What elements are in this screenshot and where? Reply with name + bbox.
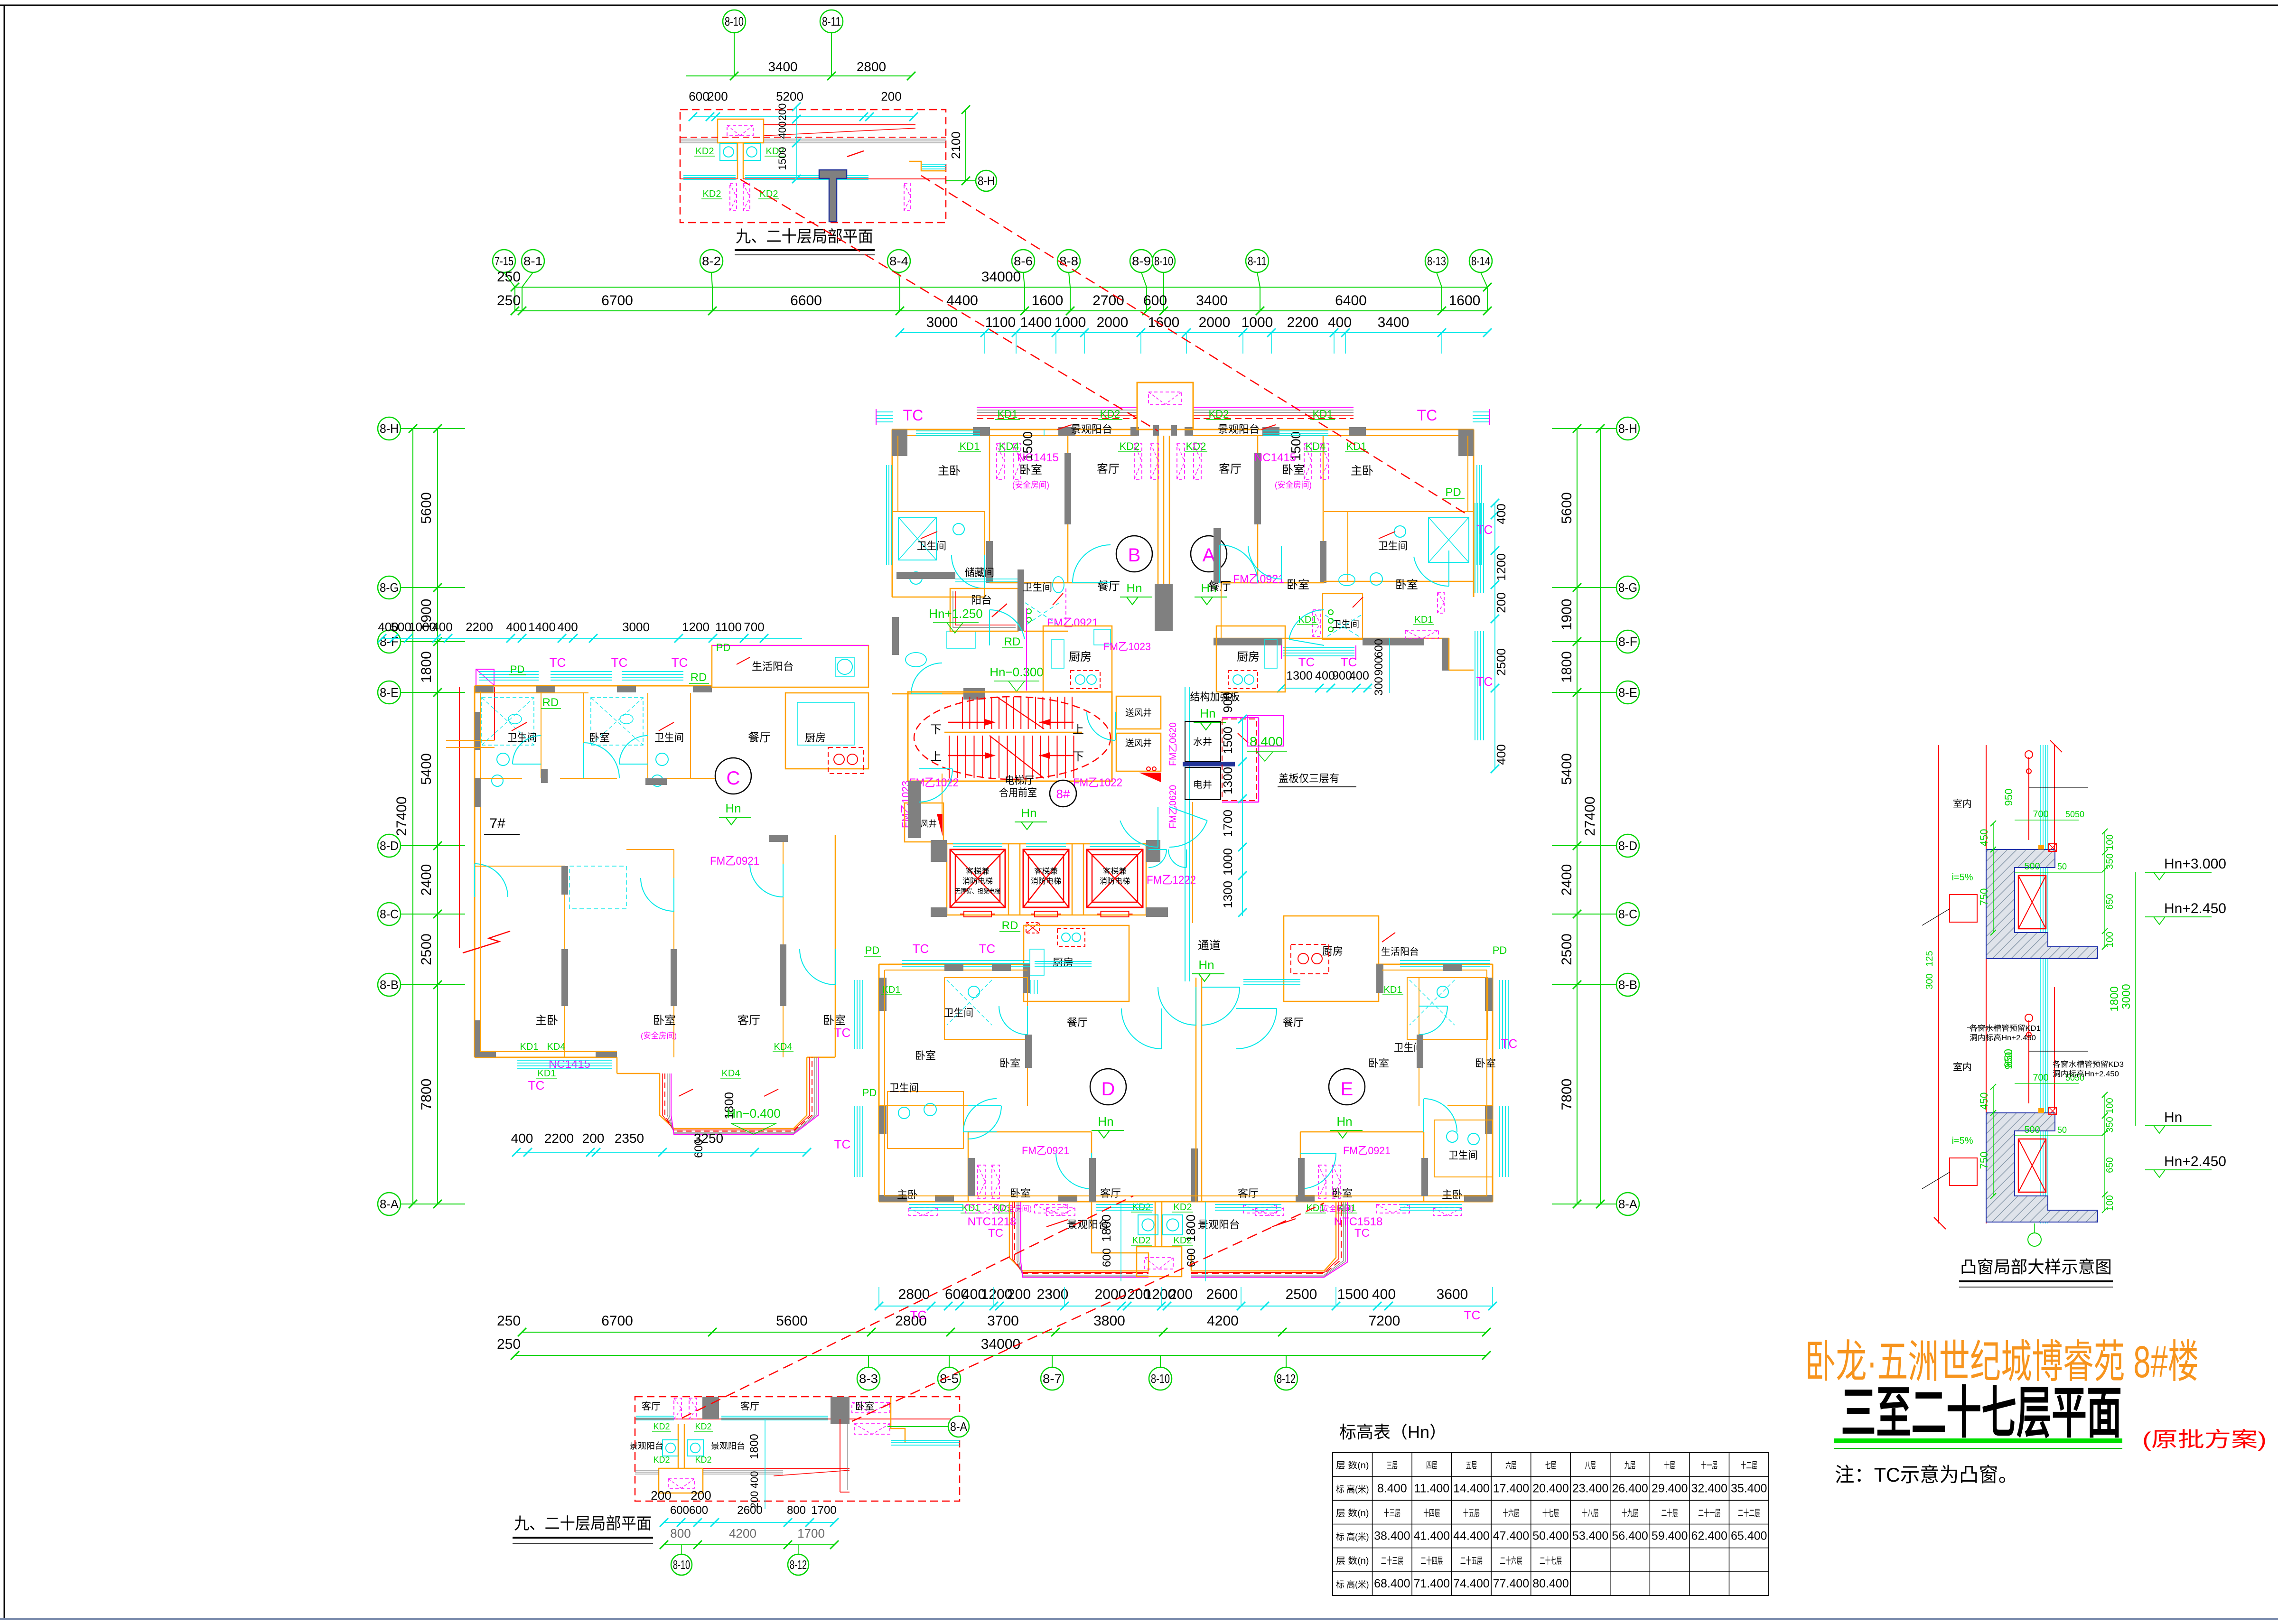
svg-text:TC: TC — [1501, 1036, 1518, 1051]
axis circles right column — [1616, 417, 1639, 440]
svg-text:400: 400 — [557, 620, 578, 634]
svg-text:1800: 1800 — [1099, 1214, 1113, 1242]
svg-text:下: 下 — [930, 723, 942, 736]
svg-text:十四层: 十四层 — [1423, 1508, 1440, 1518]
elevator 2 — [1023, 849, 1069, 907]
upper balcony band B — [977, 407, 1137, 408]
svg-text:8.400: 8.400 — [1377, 1482, 1407, 1495]
svg-text:储藏间: 储藏间 — [965, 567, 994, 579]
svg-text:Hn+2.450: Hn+2.450 — [2164, 901, 2226, 916]
svg-text:十八层: 十八层 — [1582, 1508, 1598, 1518]
bottom axis dim rows — [522, 1332, 1486, 1333]
right dim lines vertical — [1577, 429, 1578, 1204]
svg-text:500: 500 — [2024, 861, 2040, 872]
svg-text:8-C: 8-C — [380, 907, 399, 921]
svg-text:8-D: 8-D — [380, 839, 399, 853]
svg-text:室内: 室内 — [1953, 798, 1972, 809]
svg-text:TC: TC — [1464, 1308, 1481, 1322]
C top-left PD box — [476, 669, 494, 685]
svg-text:KD1: KD1 — [998, 408, 1018, 420]
svg-text:客梯兼: 客梯兼 — [1103, 867, 1127, 876]
svg-text:(安全房间): (安全房间) — [1012, 480, 1049, 490]
svg-text:26.400: 26.400 — [1612, 1482, 1648, 1495]
svg-text:十六层: 十六层 — [1503, 1508, 1519, 1518]
C bottom balcony stepped band — [660, 1057, 807, 1129]
svg-text:1600: 1600 — [1032, 293, 1064, 308]
kitchen B — [1043, 626, 1112, 692]
svg-text:29.400: 29.400 — [1652, 1482, 1688, 1495]
sheet title underline green — [1834, 1438, 2122, 1443]
svg-text:6400: 6400 — [1335, 293, 1367, 308]
left dim lines vertical — [437, 429, 438, 1204]
balcony bottom right outline — [1191, 1202, 1336, 1271]
svg-text:1200: 1200 — [682, 620, 710, 634]
detail left small rect — [1950, 1158, 1977, 1185]
svg-text:标 高(米): 标 高(米) — [1336, 1484, 1369, 1494]
C unit circle — [715, 758, 751, 794]
upper B bathroom — [892, 511, 985, 512]
lower D bathroom top — [944, 978, 1027, 1039]
svg-text:1500: 1500 — [1337, 1287, 1369, 1302]
svg-text:Hn: Hn — [1200, 706, 1215, 720]
svg-text:FM乙0921: FM乙0921 — [710, 855, 759, 868]
svg-text:Hn−0.400: Hn−0.400 — [727, 1106, 780, 1120]
balcony KD2 boxes — [1138, 1215, 1158, 1235]
svg-text:300: 300 — [1372, 677, 1385, 696]
svg-text:5200: 5200 — [776, 89, 803, 103]
svg-text:消防电梯: 消防电梯 — [1031, 877, 1061, 886]
svg-text:400: 400 — [776, 121, 788, 139]
svg-text:8-10: 8-10 — [725, 14, 744, 28]
gray band below elevators — [908, 781, 921, 838]
svg-text:400: 400 — [506, 620, 526, 634]
svg-text:PD: PD — [1445, 486, 1461, 499]
svg-text:1000: 1000 — [1055, 315, 1086, 330]
top axis dim row — [515, 310, 1487, 311]
svg-text:KD2: KD2 — [696, 146, 714, 157]
bottom partial dim row cyan — [664, 1522, 834, 1523]
svg-text:RD: RD — [691, 671, 707, 684]
svg-text:RD: RD — [1002, 919, 1018, 932]
svg-text:8-10: 8-10 — [1151, 1372, 1170, 1386]
lower E rooms dividers — [1419, 978, 1419, 1106]
bottom partial bands — [635, 1470, 659, 1471]
svg-text:47.400: 47.400 — [1493, 1530, 1529, 1543]
svg-text:二十层: 二十层 — [1661, 1508, 1678, 1518]
top partial black dims cyan line — [693, 116, 914, 117]
svg-text:100: 100 — [2105, 1195, 2115, 1211]
svg-text:标 高(米): 标 高(米) — [1336, 1532, 1369, 1542]
svg-text:1000: 1000 — [1242, 315, 1273, 330]
svg-text:C: C — [727, 768, 740, 789]
svg-text:卧室: 卧室 — [589, 732, 610, 744]
stair direction arrows — [948, 722, 985, 723]
svg-text:41.400: 41.400 — [1414, 1530, 1450, 1543]
svg-text:十九层: 十九层 — [1622, 1508, 1638, 1518]
upper center shaft KD2 — [1137, 383, 1193, 429]
lower E bathroom top — [1407, 978, 1488, 1039]
svg-text:2000: 2000 — [1095, 1287, 1127, 1302]
svg-text:KD2: KD2 — [653, 1422, 670, 1431]
svg-text:17.400: 17.400 — [1493, 1482, 1529, 1495]
lower left TC bay — [854, 980, 855, 1049]
top partial KD2 boxes — [720, 143, 737, 160]
top partial right bay — [909, 161, 946, 171]
unit circle E — [1329, 1069, 1365, 1105]
svg-text:RD: RD — [1004, 635, 1021, 648]
svg-text:900: 900 — [1372, 657, 1385, 676]
detail left small rect — [1950, 895, 1977, 922]
svg-text:3000: 3000 — [926, 315, 958, 330]
svg-text:景观阳台: 景观阳台 — [711, 1441, 745, 1451]
svg-text:KD2: KD2 — [1132, 1235, 1151, 1246]
C unit top wall and TC windows — [475, 685, 712, 687]
svg-text:400: 400 — [1494, 744, 1508, 765]
svg-text:卫生间: 卫生间 — [507, 732, 537, 744]
svg-text:卫生间: 卫生间 — [1023, 581, 1052, 593]
detail right dim col — [2104, 1095, 2105, 1210]
svg-text:80.400: 80.400 — [1532, 1577, 1568, 1590]
svg-text:主卧: 主卧 — [1442, 1189, 1463, 1201]
stairwell walls — [908, 692, 1112, 781]
detail sill marks — [2049, 1107, 2056, 1115]
D unit doors — [999, 1006, 1027, 1035]
left B wall window — [886, 465, 887, 565]
svg-text:TC: TC — [1476, 523, 1493, 537]
svg-text:卧室: 卧室 — [653, 1014, 676, 1027]
upper divider gray chunks — [1064, 453, 1071, 524]
svg-text:65.400: 65.400 — [1731, 1530, 1767, 1543]
upper room divider walls — [989, 436, 990, 583]
svg-text:1700: 1700 — [797, 1526, 825, 1540]
7# neighbour stub — [459, 687, 460, 948]
svg-text:1100: 1100 — [715, 620, 742, 634]
svg-text:NC1415: NC1415 — [1254, 451, 1296, 464]
svg-text:5400: 5400 — [1559, 753, 1575, 785]
svg-text:1400: 1400 — [1020, 315, 1052, 330]
svg-text:8.400: 8.400 — [1250, 734, 1283, 749]
svg-text:3600: 3600 — [1437, 1287, 1468, 1302]
axis circles left column — [378, 417, 401, 440]
svg-text:3000: 3000 — [622, 620, 650, 634]
svg-text:电梯厅: 电梯厅 — [1005, 775, 1034, 786]
svg-text:Hn: Hn — [2164, 1110, 2182, 1125]
upper magenta casement windows — [997, 444, 1004, 479]
svg-text:卧室: 卧室 — [1019, 464, 1042, 476]
svg-text:8#: 8# — [1056, 787, 1070, 801]
svg-text:KD2: KD2 — [653, 1455, 670, 1465]
svg-text:RD: RD — [542, 696, 559, 709]
svg-text:850: 850 — [2002, 1049, 2015, 1068]
svg-text:27400: 27400 — [1582, 796, 1598, 836]
svg-text:二十五层: 二十五层 — [1460, 1556, 1483, 1566]
svg-text:8-12: 8-12 — [790, 1558, 807, 1572]
svg-text:400: 400 — [748, 1471, 760, 1489]
svg-text:700: 700 — [2033, 809, 2048, 820]
svg-text:1600: 1600 — [1148, 315, 1180, 330]
svg-text:8-10: 8-10 — [1154, 254, 1173, 268]
svg-text:餐厅: 餐厅 — [1097, 580, 1120, 593]
svg-text:2400: 2400 — [1559, 864, 1575, 896]
svg-text:KD1: KD1 — [1313, 408, 1333, 420]
svg-text:洞内标高Hn+2.450: 洞内标高Hn+2.450 — [1970, 1034, 2036, 1042]
lower block outer right wall — [1492, 964, 1494, 1202]
lower extra magenta casements — [1046, 1208, 1075, 1215]
svg-text:客梯兼: 客梯兼 — [1034, 867, 1058, 876]
svg-text:1300: 1300 — [1286, 669, 1313, 682]
svg-text:FM乙0620: FM乙0620 — [1168, 722, 1178, 766]
lower gray chunks — [879, 978, 887, 1011]
svg-text:1800: 1800 — [2108, 986, 2121, 1011]
svg-text:2500: 2500 — [1286, 1287, 1317, 1302]
D E top border windows — [1035, 961, 1092, 962]
svg-text:750: 750 — [1978, 1152, 1990, 1169]
svg-text:客厅: 客厅 — [1219, 463, 1242, 476]
svg-text:室内: 室内 — [1953, 1062, 1972, 1073]
svg-text:KD4: KD4 — [722, 1068, 740, 1079]
svg-text:卧龙·五洲世纪城博睿苑 8#楼: 卧龙·五洲世纪城博睿苑 8#楼 — [1805, 1337, 2199, 1387]
C unit gray chunks extra — [536, 686, 555, 692]
svg-text:Hn+2.450: Hn+2.450 — [2164, 1154, 2226, 1169]
svg-text:客厅: 客厅 — [1100, 1187, 1121, 1199]
C bottom wall — [475, 1057, 617, 1058]
svg-text:1600: 1600 — [1449, 293, 1481, 308]
balcony center corridor walls — [1155, 1202, 1156, 1247]
kitchen A — [1216, 626, 1285, 692]
svg-text:11.400: 11.400 — [1414, 1482, 1450, 1495]
svg-text:2500: 2500 — [1559, 933, 1575, 965]
upper block gray wall chunks top — [892, 429, 907, 456]
svg-text:400: 400 — [1349, 669, 1369, 682]
svg-text:厨房: 厨房 — [1069, 651, 1092, 663]
svg-text:FM乙0921: FM乙0921 — [1047, 616, 1098, 629]
svg-text:8-2: 8-2 — [702, 254, 721, 268]
svg-text:56.400: 56.400 — [1612, 1530, 1648, 1543]
svg-text:洞内标高Hn+2.450: 洞内标高Hn+2.450 — [2053, 1070, 2119, 1078]
C bottom dim row — [516, 1152, 807, 1153]
svg-text:Hn+1.250: Hn+1.250 — [929, 607, 982, 621]
svg-text:1100: 1100 — [985, 315, 1016, 330]
svg-text:合用前室: 合用前室 — [999, 787, 1037, 799]
red dashed well closet — [1222, 719, 1256, 801]
svg-text:200: 200 — [651, 1488, 671, 1503]
svg-text:1300: 1300 — [1221, 767, 1235, 794]
balcony center shaft — [1137, 1247, 1182, 1277]
svg-text:NTC1518: NTC1518 — [1334, 1215, 1383, 1228]
svg-text:FM乙1023: FM乙1023 — [1103, 641, 1151, 653]
svg-text:PD: PD — [1493, 944, 1507, 956]
svg-text:十二层: 十二层 — [1741, 1460, 1757, 1471]
svg-text:20.400: 20.400 — [1532, 1482, 1568, 1495]
svg-text:200: 200 — [1007, 1287, 1031, 1302]
C unit doors — [513, 736, 541, 764]
svg-text:3400: 3400 — [768, 59, 797, 74]
svg-text:客厅: 客厅 — [740, 1401, 759, 1412]
lower E bath2 — [1434, 1120, 1493, 1177]
svg-text:2600: 2600 — [1206, 1287, 1238, 1302]
svg-text:TC: TC — [913, 942, 929, 956]
svg-text:8-H: 8-H — [380, 421, 399, 436]
svg-text:KD2: KD2 — [1186, 440, 1206, 452]
svg-text:650: 650 — [2105, 1157, 2115, 1173]
detail pipe — [2028, 757, 2029, 840]
bottom partial dashed border — [635, 1397, 960, 1501]
lower block bottom wall — [879, 1201, 1493, 1203]
svg-text:200: 200 — [881, 89, 901, 103]
svg-text:800: 800 — [787, 1504, 806, 1517]
stair zigzag break lines — [997, 697, 1044, 729]
svg-text:2200: 2200 — [1287, 315, 1319, 330]
svg-text:十七层: 十七层 — [1542, 1508, 1559, 1518]
svg-text:400: 400 — [511, 1131, 533, 1146]
top partial 2100 dim — [965, 110, 966, 181]
svg-text:5400: 5400 — [419, 753, 434, 785]
svg-text:200: 200 — [707, 89, 728, 103]
bottom partial right bay — [891, 1397, 905, 1443]
red dashed diagonal top 1 — [740, 179, 1158, 431]
right side cyan dims upper — [1494, 503, 1495, 769]
page border left — [4, 5, 5, 1619]
svg-text:100: 100 — [2105, 932, 2115, 947]
svg-text:主卧: 主卧 — [897, 1189, 918, 1201]
svg-text:送风井: 送风井 — [1125, 708, 1152, 718]
svg-text:8-11: 8-11 — [1248, 254, 1267, 268]
top partial green dims — [734, 75, 911, 76]
svg-text:2500: 2500 — [419, 933, 434, 965]
svg-text:5050: 5050 — [2065, 810, 2084, 819]
C bathrooms top row — [475, 692, 588, 693]
svg-text:厨房: 厨房 — [1322, 945, 1343, 957]
upper A bathroom right — [1324, 511, 1474, 512]
svg-text:77.400: 77.400 — [1493, 1577, 1529, 1590]
svg-text:62.400: 62.400 — [1691, 1530, 1727, 1543]
svg-text:Hn: Hn — [1098, 1114, 1113, 1129]
elevator 1 — [950, 849, 1005, 907]
svg-text:KD1: KD1 — [960, 440, 980, 452]
axis circles bottom row — [868, 1355, 869, 1367]
svg-text:NTC1218: NTC1218 — [968, 1215, 1017, 1228]
svg-text:主卧: 主卧 — [938, 465, 961, 477]
svg-text:七层: 七层 — [1545, 1460, 1557, 1471]
svg-text:700: 700 — [2033, 1073, 2048, 1083]
detail window red box — [2018, 1139, 2046, 1192]
svg-text:送风井: 送风井 — [1125, 738, 1152, 748]
svg-text:8-6: 8-6 — [1014, 254, 1033, 268]
svg-text:TC: TC — [1476, 674, 1493, 689]
svg-text:NC1415: NC1415 — [1017, 451, 1059, 464]
svg-text:四层: 四层 — [1426, 1461, 1438, 1471]
svg-text:KD1: KD1 — [520, 1042, 539, 1052]
bottom partial circles — [671, 1554, 692, 1575]
svg-text:50: 50 — [2057, 862, 2067, 871]
C outer left wall — [474, 686, 476, 1057]
svg-text:2400: 2400 — [419, 864, 434, 896]
svg-text:8-12: 8-12 — [1277, 1372, 1296, 1386]
top partial mid wall — [680, 178, 738, 179]
svg-text:8-E: 8-E — [380, 685, 399, 700]
svg-text:客厅: 客厅 — [642, 1401, 661, 1412]
bottom partial top rooms band — [635, 1419, 960, 1419]
top partial plan dashed border — [680, 110, 946, 223]
stair treads upper flight — [962, 697, 963, 729]
svg-text:8-8: 8-8 — [1059, 254, 1078, 268]
svg-text:FM乙1022: FM乙1022 — [1073, 776, 1122, 789]
stair mid rail — [944, 732, 1082, 733]
svg-text:TC: TC — [672, 655, 688, 670]
svg-text:卧室: 卧室 — [823, 1014, 846, 1027]
svg-text:6700: 6700 — [601, 1313, 633, 1329]
lower block gray chunks extra — [1025, 1035, 1032, 1068]
svg-text:卧室: 卧室 — [999, 1057, 1020, 1069]
svg-text:Hn−0.300: Hn−0.300 — [990, 665, 1043, 679]
svg-text:三层: 三层 — [1387, 1461, 1398, 1471]
svg-text:1400: 1400 — [528, 620, 556, 634]
svg-text:8-A: 8-A — [950, 1419, 968, 1434]
lower block outer left wall — [878, 964, 880, 1202]
upper right TC bay window — [1473, 411, 1490, 412]
unit circles B A — [1116, 536, 1152, 572]
svg-text:TC: TC — [988, 1227, 1003, 1240]
svg-text:8-7: 8-7 — [1043, 1372, 1062, 1386]
svg-text:100: 100 — [2105, 1098, 2115, 1113]
svg-text:1300: 1300 — [1221, 881, 1235, 908]
svg-text:KD2: KD2 — [1120, 440, 1140, 452]
svg-text:层 数(n): 层 数(n) — [1336, 1556, 1369, 1566]
svg-text:三至二十七层平面: 三至二十七层平面 — [1841, 1382, 2122, 1445]
svg-text:TC: TC — [550, 655, 566, 670]
svg-text:2000: 2000 — [1199, 315, 1231, 330]
svg-text:(安全房间): (安全房间) — [1275, 480, 1312, 490]
top cyan dim row — [900, 332, 1487, 333]
svg-text:客厅: 客厅 — [1238, 1187, 1259, 1199]
svg-text:250: 250 — [497, 1313, 521, 1329]
svg-text:餐厅: 餐厅 — [1283, 1017, 1304, 1028]
svg-text:十一层: 十一层 — [1701, 1460, 1718, 1471]
svg-text:1800: 1800 — [748, 1434, 761, 1459]
svg-text:B: B — [1128, 545, 1141, 566]
svg-text:59.400: 59.400 — [1652, 1530, 1688, 1543]
svg-text:8-1: 8-1 — [523, 254, 542, 268]
svg-text:餐厅: 餐厅 — [1067, 1017, 1088, 1028]
svg-text:Hn: Hn — [1336, 1114, 1352, 1129]
svg-text:KD4: KD4 — [547, 1042, 566, 1052]
svg-text:KD2: KD2 — [1174, 1202, 1192, 1213]
corridor cyan wall vertical — [1185, 687, 1186, 981]
corridor orange wall right of elevators — [1192, 802, 1193, 923]
water well box — [1185, 721, 1221, 762]
svg-text:卫生间: 卫生间 — [889, 1082, 919, 1094]
svg-text:1000: 1000 — [1221, 848, 1235, 876]
svg-text:350: 350 — [2105, 853, 2115, 869]
svg-text:4200: 4200 — [729, 1526, 756, 1540]
svg-text:卧室: 卧室 — [855, 1401, 874, 1412]
svg-text:450: 450 — [1978, 829, 1990, 847]
svg-text:600600: 600600 — [670, 1504, 708, 1517]
detail big dims right — [2135, 872, 2136, 1126]
svg-text:8-E: 8-E — [1618, 685, 1637, 700]
top partial 8-H circle — [976, 170, 997, 191]
svg-text:景观阳台: 景观阳台 — [1071, 423, 1112, 435]
svg-text:3800: 3800 — [1093, 1313, 1125, 1329]
svg-text:5600: 5600 — [776, 1313, 808, 1329]
detail slab hatched — [1986, 1113, 2098, 1222]
upper B balcony — [950, 588, 1018, 631]
red dashed diagonal bottom 1 — [682, 1196, 1133, 1418]
svg-text:十五层: 十五层 — [1463, 1508, 1480, 1518]
svg-text:盖板仅三层有: 盖板仅三层有 — [1279, 773, 1339, 784]
top partial red band lines — [764, 124, 915, 125]
svg-text:卧室: 卧室 — [1010, 1187, 1031, 1199]
